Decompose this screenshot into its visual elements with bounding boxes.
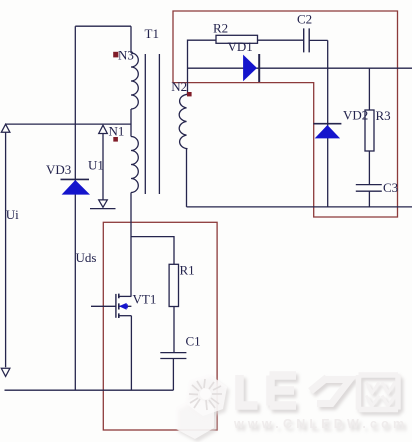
svg-text:N3: N3: [118, 48, 134, 63]
svg-text:R3: R3: [376, 108, 391, 123]
svg-text:VD2: VD2: [343, 108, 368, 123]
svg-text:VD1: VD1: [228, 39, 253, 54]
svg-text:C2: C2: [297, 12, 312, 27]
svg-text:C1: C1: [186, 334, 201, 349]
svg-text:U1: U1: [88, 158, 104, 173]
svg-text:N1: N1: [109, 124, 125, 139]
svg-text:T1: T1: [145, 26, 159, 41]
svg-text:VT1: VT1: [133, 292, 157, 307]
svg-text:C3: C3: [383, 180, 398, 195]
svg-text:VD3: VD3: [46, 162, 71, 177]
svg-text:www.CNLEDW.com: www.CNLEDW.com: [233, 417, 408, 431]
svg-text:Ui: Ui: [6, 207, 19, 222]
svg-text:Uds: Uds: [76, 250, 97, 265]
svg-text:R1: R1: [180, 263, 195, 278]
svg-text:N2: N2: [171, 79, 187, 94]
svg-text:R2: R2: [213, 21, 228, 36]
